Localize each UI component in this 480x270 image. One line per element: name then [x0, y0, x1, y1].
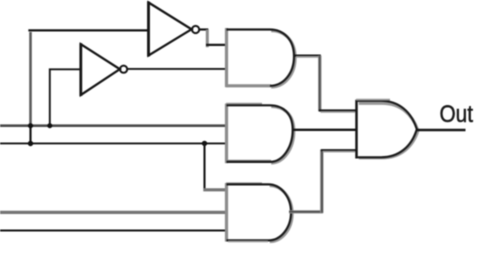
svg-text:Out: Out [440, 99, 474, 127]
